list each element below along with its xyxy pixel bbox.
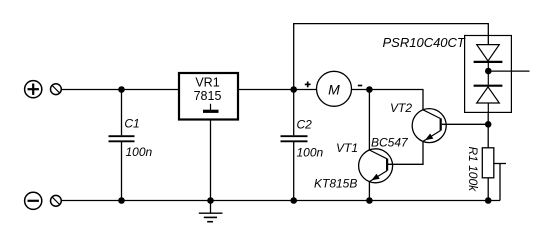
svg-text:100n: 100n (126, 145, 153, 159)
svg-text:KT815B: KT815B (314, 177, 357, 191)
svg-text:BC547: BC547 (371, 136, 409, 150)
svg-text:R1 100k: R1 100k (466, 146, 480, 192)
svg-text:C2: C2 (297, 117, 313, 131)
svg-text:100n: 100n (297, 146, 324, 160)
svg-text:C1: C1 (124, 117, 139, 131)
svg-text:VT2: VT2 (390, 101, 412, 115)
svg-text:VR1: VR1 (195, 75, 219, 89)
svg-text:VT1: VT1 (336, 141, 358, 155)
svg-text:7815: 7815 (194, 89, 222, 103)
svg-text:M: M (328, 82, 340, 98)
svg-text:PSR10C40CT: PSR10C40CT (383, 35, 466, 50)
